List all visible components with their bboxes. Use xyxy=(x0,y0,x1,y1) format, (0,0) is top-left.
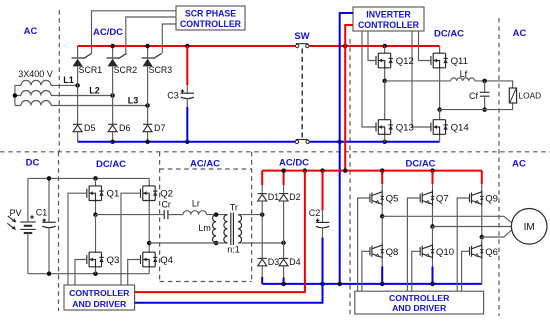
red DC+ rail top (rectifier to SW) xyxy=(78,45,296,47)
source phase inductor L3 coil xyxy=(21,101,51,106)
junction C3 bottom xyxy=(185,140,190,145)
C1 lead wires xyxy=(48,178,50,273)
diode D2 xyxy=(279,194,288,201)
Q11 source to right midpoint xyxy=(439,69,441,109)
MOSFET Q11 xyxy=(431,52,448,70)
capacitor C3 bottom lead (gray) xyxy=(186,98,188,107)
PV light arrows xyxy=(7,216,16,230)
transformer Tr primary winding xyxy=(224,215,228,243)
right midpoint junction xyxy=(437,107,442,112)
thyristor SCR3 xyxy=(142,53,162,66)
gate wire Q2 to left controller xyxy=(121,193,141,285)
secondary top wire to rectifier xyxy=(238,214,262,216)
D2 top lead red xyxy=(283,171,285,186)
switch SW mechanical link (dashed) xyxy=(301,49,303,139)
junction secondary bottom at D2 leg xyxy=(281,241,286,246)
MOSFET Q2 xyxy=(141,184,158,202)
wire L3 xyxy=(51,105,148,107)
svg-text:Q12: Q12 xyxy=(396,56,414,67)
Q11 drain wire xyxy=(439,46,441,52)
svg-text:AC/DC: AC/DC xyxy=(279,158,309,169)
svg-text:SCR1: SCR1 xyxy=(79,65,103,75)
SCR2 leg wires xyxy=(112,46,114,96)
left controller blue supply wire xyxy=(135,284,323,303)
svg-text:D1: D1 xyxy=(268,192,280,202)
svg-text:Lf: Lf xyxy=(460,69,468,79)
junction Q13 source at blue rail xyxy=(382,140,387,145)
svg-text:L2: L2 xyxy=(89,85,100,95)
gate wire Q7 to right controller xyxy=(407,198,420,291)
junction Cf bottom xyxy=(482,107,487,112)
gate wire Q5 to right controller xyxy=(358,198,370,291)
Q13 source wire xyxy=(384,136,386,142)
D2 top lead gray xyxy=(283,185,285,193)
svg-text:L1: L1 xyxy=(63,75,74,85)
Q10 emitter lead blue xyxy=(432,267,434,284)
wire Cr to Lr xyxy=(168,214,183,216)
IGBT Q8 xyxy=(370,243,384,259)
diode D5 xyxy=(73,124,82,131)
svg-text:IM: IM xyxy=(524,222,535,233)
D4 bottom lead gray xyxy=(283,266,285,278)
D5 leg to blue rail xyxy=(77,132,79,142)
Q4 source wire xyxy=(148,268,150,273)
svg-text:Q11: Q11 xyxy=(451,56,468,67)
IGBT Q6 xyxy=(470,243,484,259)
svg-text:3X400 V: 3X400 V xyxy=(18,69,53,79)
svg-text:AC: AC xyxy=(24,26,38,37)
capacitor C2 xyxy=(316,222,329,227)
Q9 emitter to midpoint xyxy=(481,206,483,237)
load resistor box xyxy=(509,88,516,103)
Q7 emitter to midpoint xyxy=(432,206,434,227)
junction Q8 at blue rail xyxy=(380,282,385,287)
svg-text:AC/AC: AC/AC xyxy=(190,158,220,169)
svg-text:n:1: n:1 xyxy=(227,244,240,254)
MOSFET Q4 xyxy=(141,251,158,269)
tank bottom wire xyxy=(149,242,227,244)
gate wire Q3 to left controller xyxy=(75,260,87,286)
controller and driver box right xyxy=(355,291,484,314)
SCR3 leg wires xyxy=(147,46,149,106)
node L2-SCR2 xyxy=(110,93,115,98)
gate wire SCR3 to controller xyxy=(162,24,176,53)
SCR3 leg to diode D7 xyxy=(147,106,149,125)
right bridge leg D2-D4 xyxy=(283,201,285,258)
svg-text:SCR3: SCR3 xyxy=(149,65,173,75)
IGBT Q9 xyxy=(470,190,484,206)
capacitor C3 bottom lead (blue) xyxy=(186,107,188,142)
svg-text:INVERTER: INVERTER xyxy=(366,10,411,20)
junction right midpoint (Q2/Q4) to tank bottom xyxy=(147,241,152,246)
wire Lr to tank top node xyxy=(207,214,228,216)
svg-text:AND DRIVER: AND DRIVER xyxy=(72,299,127,309)
induction motor IM xyxy=(511,209,547,245)
junction Cf top xyxy=(482,79,487,84)
svg-text:Q10: Q10 xyxy=(436,247,454,258)
gate wire Q13 from inverter controller xyxy=(362,31,376,127)
Q5 collector lead gray xyxy=(381,184,383,190)
Q9 collector lead gray xyxy=(481,184,483,190)
capacitor C2 bottom lead blue xyxy=(322,238,324,284)
Q7 collector lead gray xyxy=(432,184,434,190)
thyristor SCR1 xyxy=(72,53,92,66)
junction red bus at red rail xyxy=(343,44,348,49)
SCR1 leg to diode D5 xyxy=(77,85,79,124)
gate wire Q8 to right controller xyxy=(362,251,370,291)
junction controller-red at red rail xyxy=(303,168,308,173)
svg-text:C3: C3 xyxy=(167,91,179,101)
svg-text:Q9: Q9 xyxy=(485,194,498,205)
D4 bottom lead blue xyxy=(283,278,285,284)
junction Q5 at red rail xyxy=(380,168,385,173)
Q6 emitter lead gray xyxy=(481,259,483,266)
svg-text:CONTROLLER: CONTROLLER xyxy=(358,20,420,30)
PV bottom rail xyxy=(28,273,149,275)
junction blue bus at bottom blue rail xyxy=(337,282,342,287)
D1 top lead gray xyxy=(261,185,263,193)
junction D6 at blue rail xyxy=(110,140,115,145)
secondary bottom wire to rectifier xyxy=(238,242,284,244)
source phase inductor L2 coil xyxy=(21,91,51,96)
source left vertical wire xyxy=(15,85,21,105)
Cf leads xyxy=(484,81,486,110)
AC/AC dashed box xyxy=(160,152,252,282)
section divider AC | AC/DC (vertical dashed) xyxy=(58,10,60,152)
Q10 collector wire xyxy=(432,227,434,244)
svg-text:D3: D3 xyxy=(268,257,280,267)
gate wire SCR2 to controller xyxy=(126,17,176,53)
red DC+ rail top (SW to inverter) xyxy=(309,45,440,47)
MOSFET Q1 xyxy=(87,184,104,202)
svg-text:DC/AC: DC/AC xyxy=(405,159,435,170)
svg-text:Q2: Q2 xyxy=(160,189,173,200)
PV plus sign xyxy=(30,215,34,219)
junction C2 at red rail xyxy=(320,168,325,173)
diode D7 xyxy=(143,124,152,131)
svg-text:AND DRIVER: AND DRIVER xyxy=(392,303,447,313)
svg-text:D6: D6 xyxy=(119,123,131,133)
svg-text:Q7: Q7 xyxy=(436,194,449,205)
capacitor C2 top lead gray xyxy=(322,210,324,222)
blue DC- rail top (SW to inverter) xyxy=(309,141,439,143)
D3 bottom lead gray xyxy=(261,266,263,277)
thyristor SCR2 xyxy=(107,53,127,66)
junction secondary top at D1 leg xyxy=(260,212,265,217)
transformer Tr secondary winding xyxy=(238,215,242,243)
diode D4 xyxy=(279,258,288,265)
svg-text:CONTROLLER: CONTROLLER xyxy=(389,293,450,303)
diode D1 xyxy=(258,194,267,201)
Q9 collector lead red xyxy=(481,171,483,184)
Q2 source through to Q4 xyxy=(148,202,150,251)
svg-text:C2: C2 xyxy=(309,208,321,218)
Q6 collector wire xyxy=(481,237,483,243)
IGBT Q10 xyxy=(420,243,434,259)
Q8 emitter lead blue xyxy=(381,267,383,284)
left midpoint junction xyxy=(382,79,387,84)
junction blue bus at blue rail xyxy=(337,140,342,145)
wire left midpoint to filter Lf xyxy=(385,80,451,82)
Q14 source wire xyxy=(439,136,441,142)
junction D2 at red rail xyxy=(281,168,286,173)
blue DC- rail bottom xyxy=(262,283,482,285)
diode D6 xyxy=(108,124,117,131)
source phase inductor L1 coil xyxy=(21,80,51,85)
gate wire Q6 to right controller xyxy=(462,251,470,291)
red DC+ rail bottom xyxy=(262,170,482,172)
gate wire Q10 to right controller xyxy=(412,251,420,291)
Q14 drain wire xyxy=(439,110,441,119)
junction Q1 drain xyxy=(93,176,98,181)
svg-text:D2: D2 xyxy=(289,192,301,202)
phase wire 3 to motor xyxy=(482,230,512,237)
phase wire 2 to motor xyxy=(433,226,512,228)
gate wire Q14 from inverter controller xyxy=(412,31,431,127)
wire L1 xyxy=(51,84,78,86)
junction Q7 at red rail xyxy=(430,168,435,173)
switch SW pole on blue rail xyxy=(296,139,309,141)
Q5 emitter to midpoint xyxy=(381,206,383,216)
svg-text:Lm: Lm xyxy=(198,223,211,233)
gate wire SCR1 to controller xyxy=(92,11,177,54)
capacitor Cr xyxy=(164,210,168,219)
node L3-SCR3 xyxy=(145,103,150,108)
switch SW pole on red rail xyxy=(296,43,308,45)
D1 top lead red xyxy=(261,171,263,186)
svg-text:Q5: Q5 xyxy=(386,194,399,205)
svg-text:Q1: Q1 xyxy=(107,189,120,200)
section divider at x=499 (DC/AC | AC) xyxy=(498,18,500,316)
diode D3 xyxy=(258,258,267,265)
IGBT Q5 xyxy=(370,190,384,206)
junction left midpoint (Q1/Q3) xyxy=(93,212,98,217)
svg-text:D4: D4 xyxy=(289,257,301,267)
junction SCR2 anode xyxy=(110,44,115,49)
section divider DC | DC/AC bottom (vertical dashed) xyxy=(58,152,60,311)
svg-text:PV: PV xyxy=(9,208,21,218)
capacitor Cf xyxy=(480,92,490,96)
section divider horizontal between top and bottom halves xyxy=(0,151,550,153)
PV battery symbol xyxy=(20,222,35,233)
svg-text:DC/AC: DC/AC xyxy=(434,29,464,40)
junction SCR3 anode xyxy=(145,44,150,49)
Q1 source to midpoint xyxy=(95,202,97,215)
wire Lf to load corner xyxy=(475,81,513,88)
junction Lm top xyxy=(214,212,219,217)
capacitor C3 top lead (red) xyxy=(186,46,188,85)
svg-text:D5: D5 xyxy=(84,123,96,133)
gate wire Q9 to right controller xyxy=(457,198,469,291)
inverter controller box xyxy=(353,7,424,31)
MOSFET Q14 xyxy=(431,118,448,136)
svg-text:L3: L3 xyxy=(128,96,139,106)
svg-text:DC: DC xyxy=(26,158,40,169)
junction C1 top xyxy=(47,176,52,181)
svg-text:C1: C1 xyxy=(36,208,48,218)
D3 bottom lead blue xyxy=(261,277,263,284)
junction on source vertical xyxy=(13,93,18,98)
svg-text:Lr: Lr xyxy=(192,199,200,209)
junction Lm bottom xyxy=(214,241,219,246)
svg-text:D7: D7 xyxy=(154,123,166,133)
capacitor C3 xyxy=(181,93,194,98)
junction red bus at bottom red rail xyxy=(343,168,348,173)
MOSFET Q13 xyxy=(376,118,393,136)
Q7 collector lead red xyxy=(432,171,434,184)
magnetizing inductor Lm xyxy=(213,215,217,243)
D6 leg to blue rail xyxy=(112,132,114,142)
left bridge leg D1-D3 xyxy=(261,201,263,258)
gate wire Q12 from inverter controller xyxy=(368,31,376,61)
Q1 drain wire xyxy=(95,178,97,184)
red bus wire from inverter controller down to bottom half xyxy=(345,25,353,171)
PV branch wires xyxy=(27,178,29,273)
junction C2 at blue rail xyxy=(320,282,325,287)
junction C1 bottom xyxy=(47,271,52,276)
Q5 collector lead red xyxy=(381,171,383,184)
junction Q10 at blue rail xyxy=(430,282,435,287)
svg-text:Cr: Cr xyxy=(161,200,171,210)
gate wire Q1 to left controller xyxy=(68,193,87,285)
svg-text:SCR2: SCR2 xyxy=(114,65,138,75)
Q12 source to left midpoint xyxy=(384,69,386,81)
Q3 source wire xyxy=(95,268,97,273)
IGBT Q7 xyxy=(420,190,434,206)
junction Q12 drain at red rail xyxy=(382,44,387,49)
phase midpoint junction Q7/Q10 xyxy=(430,224,435,229)
svg-text:CONTROLLER: CONTROLLER xyxy=(180,19,242,29)
capacitor C2 bottom lead gray xyxy=(322,227,324,237)
Q3 drain wire xyxy=(95,215,97,251)
gate wire Q11 from inverter controller xyxy=(419,31,431,61)
Q6 emitter lead gray to rail end xyxy=(481,267,483,284)
Q10 emitter lead gray xyxy=(432,259,434,266)
svg-text:SCR PHASE: SCR PHASE xyxy=(185,9,236,19)
capacitor C2 top lead red xyxy=(322,171,324,211)
D7 leg to blue rail xyxy=(147,132,149,142)
svg-text:DC/AC: DC/AC xyxy=(96,159,126,170)
PV top rail xyxy=(28,177,149,179)
blue DC- rail top (rectifier to SW) xyxy=(78,141,296,143)
svg-text:SW: SW xyxy=(294,31,309,42)
svg-text:Q8: Q8 xyxy=(386,247,399,258)
svg-text:Q14: Q14 xyxy=(451,123,470,134)
Q8 collector wire xyxy=(381,216,383,243)
capacitor C3 top lead (gray) xyxy=(186,85,188,93)
left controller red supply wire xyxy=(135,171,305,293)
phase wire 1 to motor xyxy=(382,216,511,222)
svg-text:AC/DC: AC/DC xyxy=(93,27,123,38)
node L1-SCR1 xyxy=(75,83,80,88)
svg-text:Q3: Q3 xyxy=(107,255,120,266)
SCR1 anode and cathode leg wires xyxy=(77,46,79,85)
blue bus wire from inverter controller down to bottom half xyxy=(340,13,353,284)
Q8 emitter lead gray xyxy=(381,259,383,266)
wire L2 xyxy=(51,95,113,97)
Q2 drain wire xyxy=(148,178,150,184)
svg-text:AC: AC xyxy=(512,159,526,170)
phase midpoint junction Q9/Q6 xyxy=(480,235,485,240)
capacitor C1 xyxy=(42,222,55,227)
SCR2 leg to diode D6 xyxy=(112,96,114,125)
junction Q3 source xyxy=(93,271,98,276)
transformer core xyxy=(231,213,234,246)
phase midpoint junction Q5/Q8 xyxy=(380,214,385,219)
svg-text:Cf: Cf xyxy=(469,91,478,101)
wire right midpoint to load bottom xyxy=(440,103,513,110)
Q12 drain wire xyxy=(384,46,386,52)
controller and driver box left xyxy=(64,285,135,310)
svg-text:AC: AC xyxy=(513,28,527,39)
junction D7 at blue rail xyxy=(145,140,150,145)
inductor Lr xyxy=(183,211,206,215)
section divider at x=350 (AC/DC | DC/AC) xyxy=(349,39,351,316)
svg-text:Q4: Q4 xyxy=(160,255,173,266)
MOSFET Q12 xyxy=(376,52,393,70)
gate wire Q4 to left controller xyxy=(128,260,141,286)
inductor Lf xyxy=(451,78,475,81)
junction D4 at blue rail xyxy=(281,282,286,287)
svg-text:Q13: Q13 xyxy=(396,123,414,134)
svg-text:CONTROLLER: CONTROLLER xyxy=(69,288,130,298)
MOSFET Q3 xyxy=(87,251,104,269)
junction C3 top xyxy=(185,44,190,49)
wire midpoint to Cr xyxy=(96,214,165,216)
svg-text:Tr: Tr xyxy=(230,202,238,212)
svg-text:Q6: Q6 xyxy=(485,247,498,258)
Q13 drain wire xyxy=(384,81,386,118)
SCR phase controller box xyxy=(176,6,245,30)
svg-text:LOAD: LOAD xyxy=(519,90,542,100)
